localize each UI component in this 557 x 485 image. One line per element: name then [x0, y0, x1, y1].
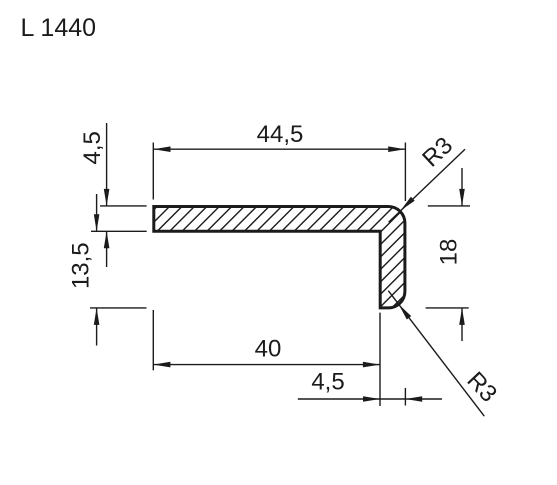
- arrow left: [153, 362, 170, 368]
- dim line: [153, 364, 380, 366]
- dimension 40 (bottom): [153, 310, 380, 406]
- hatching 45deg: [34, 200, 513, 330]
- ext line bottom y=231.3: [91, 230, 147, 232]
- svg-text:13,5: 13,5: [68, 242, 95, 289]
- ext line right x=405.4: [404, 388, 406, 406]
- leader line: [389, 149, 465, 222]
- ext line top y=205.9: [428, 205, 470, 207]
- dimension 13,5 (left): [90, 194, 147, 346]
- arrow left-pointing (tip at outer face): [405, 396, 422, 402]
- ext line bottom y=307.9: [426, 307, 469, 309]
- arrow right: [388, 146, 405, 152]
- extension line right x=405.4: [404, 143, 406, 202]
- ext line top y=205.9: [100, 205, 147, 207]
- arrow right-pointing (tip at inner face): [363, 396, 380, 402]
- svg-text:18: 18: [436, 239, 463, 266]
- leader R3 bottom: [388, 291, 484, 417]
- arrow left: [154, 146, 171, 152]
- dimension 4,5 (leg thickness, bottom): [298, 388, 442, 406]
- arrow up: [94, 308, 100, 325]
- arrow up: [459, 308, 465, 325]
- dim line vertical x=106.6: [106, 123, 108, 206]
- dim line: [154, 148, 406, 150]
- leader R3 top: [389, 149, 465, 222]
- arrow right: [363, 362, 380, 368]
- dimension 44,5 (top width): [153, 143, 405, 202]
- arrow down: [104, 189, 110, 206]
- profile outline (L cross-section): [154, 207, 405, 308]
- svg-text:40: 40: [255, 336, 282, 363]
- leader line: [388, 291, 484, 417]
- dim line: [298, 398, 442, 400]
- ext line right x=380 (leg inner face, shared with 4,5): [379, 313, 381, 406]
- arrowhead at arc: [401, 197, 415, 211]
- extension line left x=153.3: [152, 143, 154, 200]
- svg-text:4,5: 4,5: [311, 369, 344, 396]
- ext line bottom y=307.9: [90, 307, 147, 309]
- dim line vertical x=462: [461, 168, 463, 206]
- svg-text:4,5: 4,5: [79, 131, 106, 164]
- arrow down: [94, 214, 100, 231]
- arrow down: [459, 189, 465, 206]
- arrow up: [104, 231, 110, 248]
- dimension 4,5 (flange thickness, left): [91, 123, 147, 267]
- ext line left x=153.3: [152, 310, 154, 370]
- dim line vertical x=96.6: [96, 194, 98, 231]
- arrowhead at arc: [399, 304, 412, 319]
- dimension 18 (right height): [426, 168, 470, 341]
- svg-text:L 1440: L 1440: [21, 14, 97, 42]
- svg-text:44,5: 44,5: [257, 121, 304, 148]
